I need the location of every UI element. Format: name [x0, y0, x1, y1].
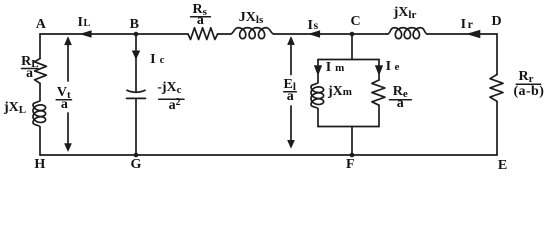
inductor jXL (load reactance, vertical coil) [33, 101, 46, 127]
arrowhead Ir current arrow on top rail [467, 30, 480, 38]
wire: RL to jXL [39, 83, 41, 100]
value label -jXc (numerator of -jXc/a2) [157, 82, 181, 94]
wire: box right branch upper [378, 60, 380, 81]
node A label [36, 19, 46, 31]
wire: box top bar [318, 59, 379, 61]
wire: jXL to H corner [39, 127, 41, 155]
wire: right branch D down to Rr [496, 34, 498, 75]
value label Vt (numerator of Vt/a) [57, 87, 71, 99]
node E label [498, 160, 507, 172]
wire: top rail A to B [40, 33, 136, 35]
value label RL (numerator of RL/a) [21, 56, 38, 68]
arrowhead Is current arrow on top rail [309, 31, 320, 38]
current label Ie [386, 61, 400, 73]
arrowhead IL current arrow on top rail [81, 31, 92, 38]
fraction bar of El/a [284, 91, 297, 93]
wire: bottom rail F to E [352, 154, 497, 156]
value label JXls [239, 12, 263, 24]
value label a (denominator of Rs/a) [197, 15, 204, 27]
wire: box bottom bar [318, 126, 379, 128]
node B junction dot [134, 32, 139, 37]
value label a (denominator of RL/a) [26, 68, 33, 80]
voltage arrow El/a up head [288, 37, 295, 75]
fraction bar of Rr/(a-b) [516, 83, 541, 85]
inductor jXls (stator leakage reactance coil) [231, 28, 274, 39]
resistor Re/a (core-loss resistance, vertical zigzag) [372, 80, 385, 105]
voltage arrow Vt/a up head [65, 37, 72, 81]
current label IL [77, 17, 90, 30]
arrowhead Im current arrow [314, 66, 321, 75]
fraction bar of Rs/a [191, 16, 211, 18]
value label a (denominator of Re/a) [397, 98, 404, 110]
wire: capacitor down to G [135, 98, 137, 155]
value label jXL [4, 102, 26, 114]
node G label [131, 159, 142, 171]
resistor RL/a (load resistance, vertical zigzag) [35, 59, 47, 84]
capacitor -jXc/a2 top curved plate [127, 90, 145, 92]
value label Rs (numerator of Rs/a) [192, 4, 206, 16]
current label Ic [150, 54, 164, 66]
wire: jXlr to D corner [427, 33, 497, 35]
voltage arrow Vt/a down head [65, 113, 72, 151]
fraction bar of Vt/a [56, 99, 71, 101]
value label a2 (denominator of -jXc/a2) [169, 100, 181, 113]
value label a (denominator of Vt/a) [61, 99, 68, 111]
resistor Rr/(a-b) (rotor resistance, vertical zigzag) [490, 75, 503, 102]
fraction bar of RL/a [22, 68, 39, 70]
current label Is [307, 19, 318, 32]
wire: jXls to C [274, 33, 352, 35]
wire: box left branch upper [317, 60, 319, 83]
wire: top rail B to Rs [136, 33, 188, 35]
voltage arrow El/a down head [288, 106, 295, 148]
wire: box right branch lower [378, 105, 380, 126]
fraction bar of Re/a [389, 99, 411, 101]
wire: branch C down to magnetising box [351, 34, 353, 60]
inductor jXlr (rotor leakage reactance coil) [388, 28, 428, 39]
capacitor -jXc/a2 bottom plate [127, 97, 146, 99]
node C junction dot [350, 32, 355, 37]
current label Im [326, 62, 345, 74]
wire: bottom rail G to F [136, 154, 352, 156]
value label Rr (numerator of Rr/(a-b)) [518, 71, 533, 83]
value label El (numerator of El/a) [283, 79, 295, 91]
node G junction dot [134, 153, 139, 158]
resistor Rs/a (stator resistance, horizontal zigzag) [188, 28, 218, 40]
value label a (denominator of El/a) [287, 91, 294, 103]
wire: box left branch lower [317, 109, 319, 127]
node F label [346, 159, 355, 171]
value label (a-b) (denominator of Rr/(a-b)) [514, 86, 545, 98]
value label Re (numerator of Re/a) [393, 86, 408, 98]
current label Ir [461, 18, 473, 31]
wire: branch B down to capacitor [135, 34, 137, 92]
node D label [491, 16, 501, 28]
fraction bar of -jXc/a2 [159, 98, 184, 100]
node C label [350, 16, 360, 28]
node B label [130, 19, 139, 31]
node H label [34, 159, 45, 171]
wire: box down to F [351, 127, 353, 156]
inductor jXm (magnetising reactance, vertical coil) [311, 83, 324, 109]
wire: Rr to E corner [496, 101, 498, 155]
wire: Rs to jXls [218, 33, 231, 35]
arrowhead Ic current arrow [132, 51, 140, 59]
wire: C to jXlr [352, 33, 388, 35]
value label jXlr [394, 7, 417, 19]
node F junction dot [350, 153, 355, 158]
wire: left branch A down to RL [39, 34, 41, 59]
arrowhead Ie current arrow [375, 66, 382, 75]
value label jXm [328, 86, 352, 98]
wire: bottom rail H to G [40, 154, 136, 156]
